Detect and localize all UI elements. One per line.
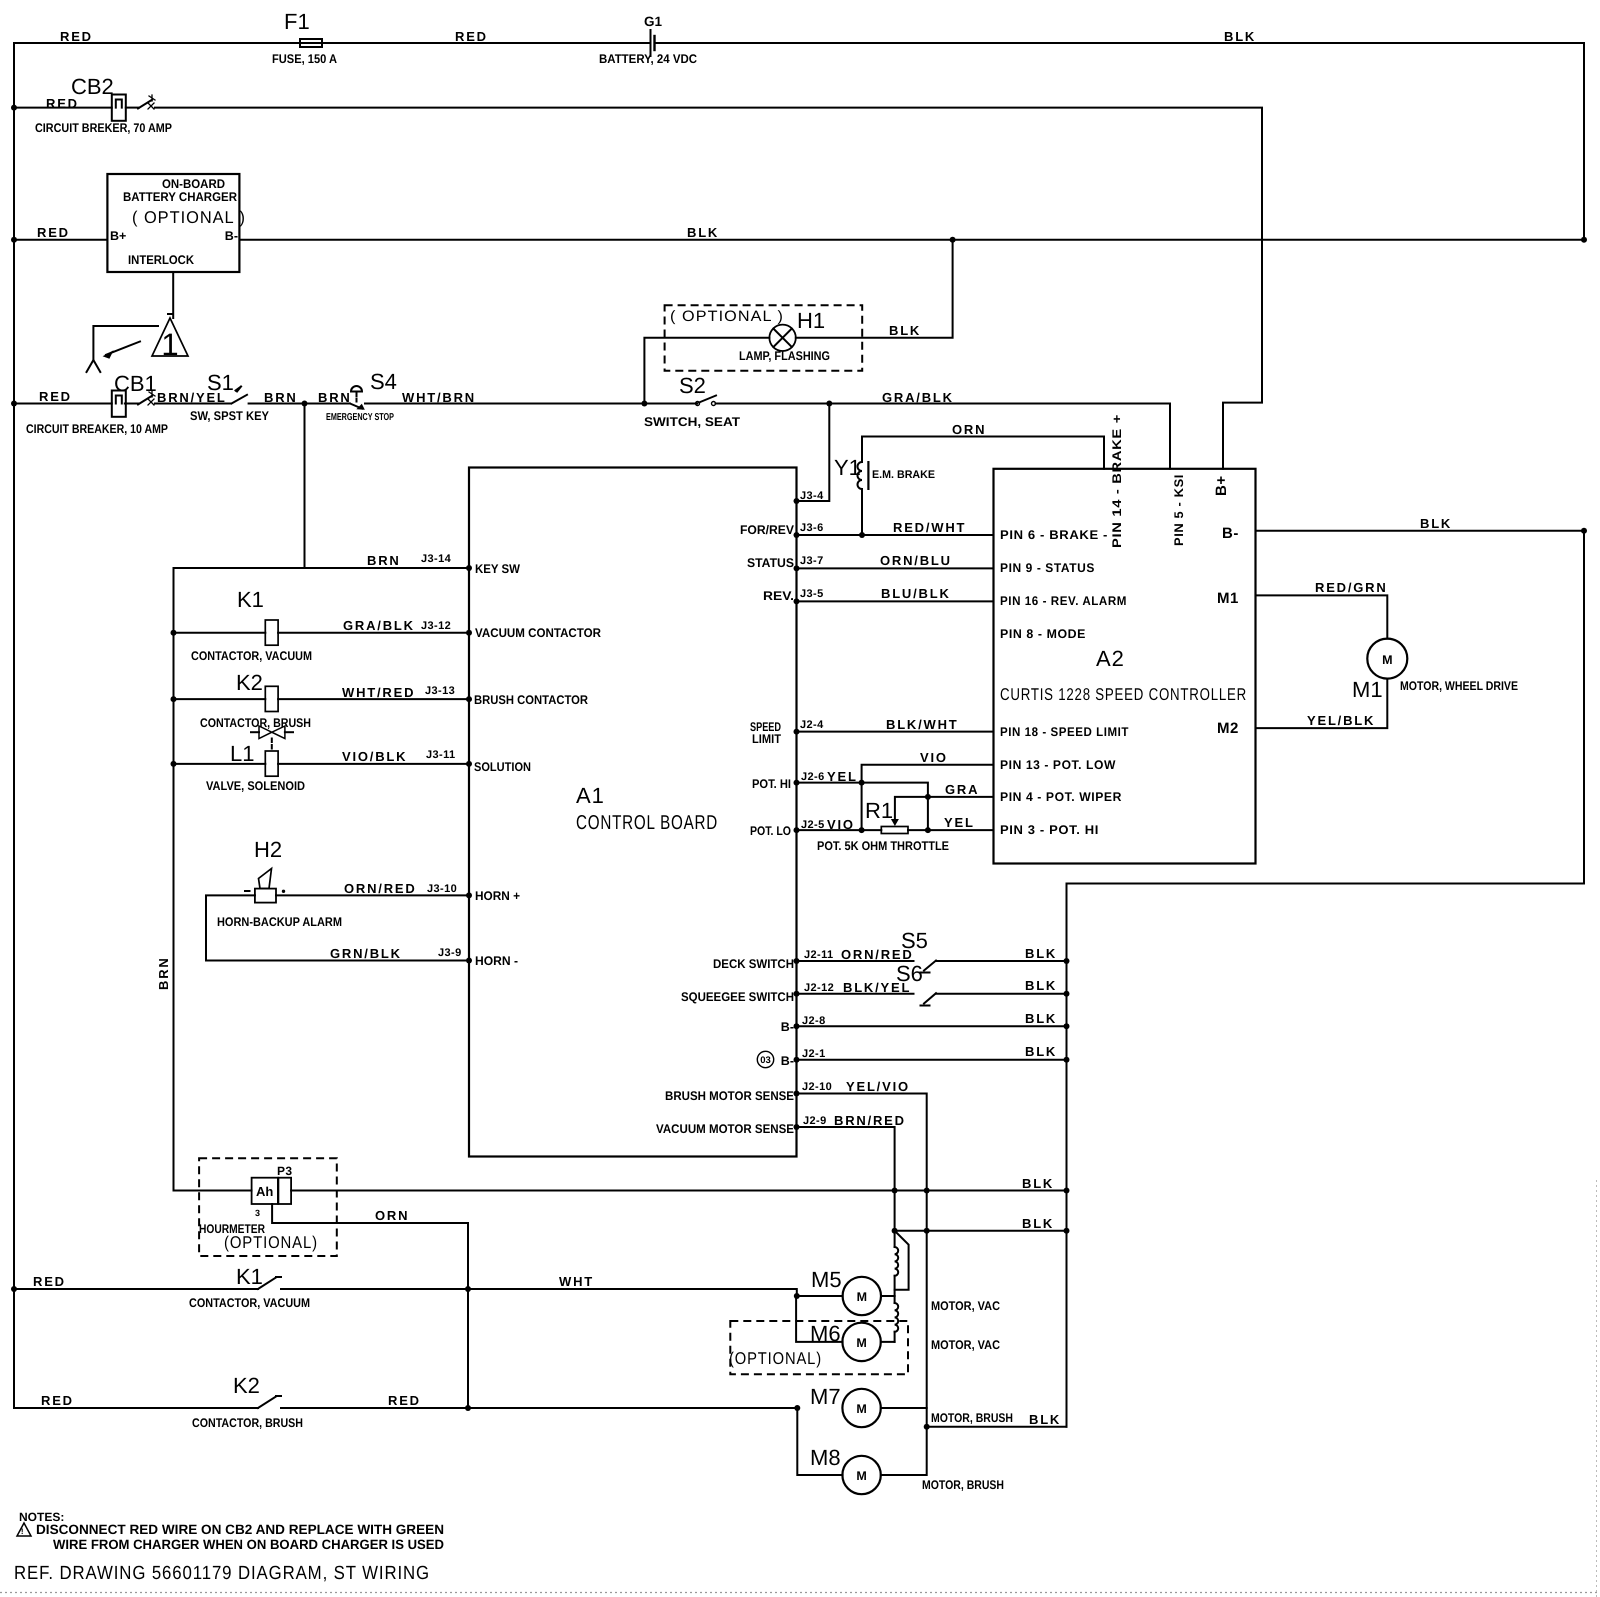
svg-text:PIN 16 - REV. ALARM: PIN 16 - REV. ALARM (1000, 594, 1127, 608)
svg-text:WHT/RED: WHT/RED (342, 685, 415, 700)
wire M2 YEL/BLK (1256, 679, 1388, 729)
svg-text:WIRE FROM CHARGER WHEN ON BOAR: WIRE FROM CHARGER WHEN ON BOARD CHARGER … (53, 1537, 444, 1552)
svg-text:BRUSH CONTACTOR: BRUSH CONTACTOR (474, 693, 588, 707)
speed controller A2 (994, 469, 1256, 864)
wire BRN/YEL (155, 390, 231, 405)
svg-text:BRN: BRN (367, 553, 401, 568)
svg-text:PIN 5 - KSI: PIN 5 - KSI (1172, 474, 1186, 546)
contactor coil K2 (174, 670, 470, 730)
motor M5 vacuum (797, 1267, 1000, 1315)
motor M6 vacuum optional (729, 1296, 1000, 1374)
svg-text:M1: M1 (1352, 677, 1383, 702)
wire RED to charger B+ (14, 225, 107, 240)
svg-text:F1: F1 (284, 9, 310, 34)
svg-text:PIN 3 - POT. HI: PIN 3 - POT. HI (1000, 823, 1099, 837)
svg-text:GRA: GRA (945, 782, 979, 797)
svg-text:BLK: BLK (1025, 1011, 1057, 1026)
svg-text:PIN 18 - SPEED LIMIT: PIN 18 - SPEED LIMIT (1000, 725, 1129, 739)
svg-text:SW, SPST KEY: SW, SPST KEY (190, 409, 270, 423)
switch S4 emergency stop (326, 369, 397, 423)
svg-text:J2-9: J2-9 (803, 1115, 827, 1127)
svg-text:PIN 6 - BRAKE -: PIN 6 - BRAKE - (1000, 528, 1108, 542)
svg-text:RED: RED (39, 389, 72, 404)
wire BRN (249, 390, 352, 405)
svg-text:BLK: BLK (1420, 516, 1452, 531)
node A1 left pin labels (474, 562, 601, 968)
svg-text:WHT/BRN: WHT/BRN (402, 390, 476, 405)
contact K2 brush contactor (14, 1373, 303, 1430)
svg-text:!: ! (21, 1527, 24, 1536)
svg-text:R1: R1 (865, 798, 893, 823)
svg-text:E.M. BRAKE: E.M. BRAKE (872, 469, 935, 481)
svg-text:B-: B- (781, 1054, 794, 1068)
note-1 warning triangle (152, 314, 188, 362)
svg-text:BLK: BLK (1025, 946, 1057, 961)
contactor coil K1 (174, 587, 470, 663)
wire CB2 row (14, 107, 112, 109)
wire H1 lamp BLK to interlock bus (796, 240, 953, 338)
svg-text:FUSE, 150 A: FUSE, 150 A (272, 52, 337, 66)
svg-text:L1: L1 (230, 741, 254, 766)
wire hourmeter ORN to vac feed (272, 1204, 468, 1408)
svg-text:VACUUM MOTOR SENSE: VACUUM MOTOR SENSE (656, 1122, 794, 1136)
svg-text:CONTACTOR, VACUUM: CONTACTOR, VACUUM (189, 1296, 310, 1310)
svg-text:RED: RED (46, 96, 79, 111)
svg-text:MOTOR, VAC: MOTOR, VAC (931, 1299, 1000, 1313)
wire K2 to M7 RED (281, 1393, 797, 1408)
solenoid valve coil L1 (174, 741, 470, 793)
svg-text:CB1: CB1 (114, 371, 157, 396)
svg-text:ORN/RED: ORN/RED (344, 881, 417, 896)
svg-text:POT. LO: POT. LO (750, 824, 791, 838)
svg-text:CONTROL BOARD: CONTROL BOARD (576, 812, 718, 834)
svg-text:A2: A2 (1096, 646, 1125, 671)
svg-text:BRN: BRN (156, 956, 171, 990)
svg-text:PIN 14 - BRAKE +: PIN 14 - BRAKE + (1110, 414, 1124, 548)
svg-text:J3-4: J3-4 (800, 490, 824, 502)
svg-text:( OPTIONAL ): ( OPTIONAL ) (132, 208, 246, 227)
svg-text:(OPTIONAL): (OPTIONAL) (224, 1233, 318, 1252)
svg-text:K1: K1 (236, 1264, 263, 1289)
svg-text:SOLUTION: SOLUTION (474, 760, 531, 774)
svg-text:J3-14: J3-14 (421, 553, 452, 565)
svg-text:P3: P3 (277, 1164, 292, 1178)
svg-text:BLU/BLK: BLU/BLK (881, 586, 951, 601)
horn H2 backup alarm (217, 837, 342, 929)
battery charger A interlock box (107, 174, 246, 272)
svg-text:ON-BOARD: ON-BOARD (162, 177, 225, 191)
svg-text:M: M (1382, 653, 1392, 667)
circuit breaker CB1 (26, 371, 168, 436)
svg-text:REV.: REV. (763, 589, 794, 603)
svg-text:PIN 9 - STATUS: PIN 9 - STATUS (1000, 561, 1095, 575)
svg-text:( OPTIONAL ): ( OPTIONAL ) (670, 308, 784, 325)
svg-text:J2-5: J2-5 (801, 819, 825, 831)
svg-text:H2: H2 (254, 837, 282, 862)
svg-text:B+: B+ (1213, 475, 1230, 496)
svg-text:BATTERY, 24 VDC: BATTERY, 24 VDC (599, 52, 697, 66)
svg-text:KEY SW: KEY SW (475, 562, 520, 576)
svg-text:CIRCUIT BREKER, 70 AMP: CIRCUIT BREKER, 70 AMP (35, 121, 172, 135)
svg-text:K2: K2 (236, 670, 263, 695)
svg-text:B-: B- (781, 1020, 794, 1034)
wire K1 to M5 WHT (281, 1274, 797, 1296)
notes block (14, 1510, 444, 1584)
svg-text:VIO/BLK: VIO/BLK (342, 749, 407, 764)
inductor M5 field coil (895, 1231, 899, 1296)
svg-text:LIMIT: LIMIT (752, 732, 781, 746)
svg-text:B-: B- (225, 229, 238, 243)
svg-text:VACUUM CONTACTOR: VACUUM CONTACTOR (475, 626, 601, 640)
svg-text:BLK/YEL: BLK/YEL (843, 980, 911, 995)
svg-text:J2-12: J2-12 (804, 982, 834, 994)
wire H1 lamp feed from seat switch (644, 338, 769, 404)
svg-text:RED: RED (388, 1393, 421, 1408)
svg-text:J2-10: J2-10 (802, 1081, 832, 1093)
svg-text:S4: S4 (370, 369, 397, 394)
svg-text:EMERGENCY STOP: EMERGENCY STOP (326, 412, 394, 423)
svg-text:YEL: YEL (827, 769, 858, 784)
battery G1 (599, 14, 697, 66)
svg-text:BLK: BLK (1022, 1176, 1054, 1191)
wire M1 RED/GRN (1256, 580, 1388, 639)
svg-text:M: M (857, 1290, 867, 1304)
svg-text:BRN/RED: BRN/RED (834, 1113, 906, 1128)
svg-text:VIO: VIO (920, 750, 948, 765)
svg-text:BATTERY CHARGER: BATTERY CHARGER (123, 190, 237, 204)
svg-text:HORN -: HORN - (475, 954, 518, 968)
inductor M6 field coil (895, 1296, 899, 1342)
node A2 pin labels (1000, 414, 1239, 837)
svg-text:M5: M5 (811, 1267, 842, 1292)
wire horn - GRN/BLK J3-9 (206, 946, 469, 961)
svg-text:VIO: VIO (827, 817, 855, 832)
wire J2-4 BLK/WHT speed limit (797, 717, 994, 732)
wire B- BLK row (1067, 516, 1585, 1427)
wire horn + ORN/RED J3-10 (206, 881, 469, 961)
svg-text:GRA/BLK: GRA/BLK (882, 390, 954, 405)
svg-text:MOTOR, VAC: MOTOR, VAC (931, 1338, 1000, 1352)
control board A1 (469, 468, 797, 1157)
svg-text:BLK: BLK (1224, 29, 1256, 44)
node circled 03 (757, 1051, 773, 1067)
svg-text:3: 3 (255, 1208, 260, 1218)
svg-text:HORN +: HORN + (475, 889, 520, 903)
svg-text:BLK: BLK (1025, 1044, 1057, 1059)
svg-text:G1: G1 (644, 14, 663, 29)
svg-text:CONTACTOR, BRUSH: CONTACTOR, BRUSH (200, 716, 311, 730)
svg-text:RED/GRN: RED/GRN (1315, 580, 1388, 595)
svg-text:REF. DRAWING 56601179 DIAGRAM,: REF. DRAWING 56601179 DIAGRAM, ST WIRING (14, 1563, 430, 1584)
motor M1 wheel drive (1352, 639, 1518, 702)
svg-text:GRN/BLK: GRN/BLK (330, 946, 402, 961)
svg-text:J2-1: J2-1 (802, 1048, 826, 1060)
svg-text:J2-11: J2-11 (804, 949, 834, 961)
svg-text:BRUSH MOTOR SENSE: BRUSH MOTOR SENSE (665, 1089, 794, 1103)
switch S5 deck switch J2-11 (797, 928, 1067, 973)
svg-text:POT. HI: POT. HI (752, 777, 791, 791)
svg-text:H1: H1 (797, 308, 825, 333)
svg-text:J3-5: J3-5 (800, 588, 824, 600)
motor M7 brush (810, 1384, 1013, 1427)
wire CB1 row RED (14, 389, 112, 404)
svg-text:CURTIS 1228 SPEED CONTROLLER: CURTIS 1228 SPEED CONTROLLER (1000, 685, 1247, 704)
wire J3-5 BLU/BLK rev row (797, 586, 994, 601)
svg-text:MOTOR, WHEEL DRIVE: MOTOR, WHEEL DRIVE (1400, 679, 1518, 693)
svg-text:BLK: BLK (1029, 1412, 1061, 1427)
svg-text:DECK SWITCH: DECK SWITCH (713, 957, 794, 971)
wire charger interlock drop (172, 272, 174, 318)
wire J2-10 YEL/VIO brush motor sense (797, 1079, 927, 1427)
svg-text:RED: RED (41, 1393, 74, 1408)
wire J2-9 BRN/RED vacuum motor sense (797, 1113, 906, 1231)
svg-text:(OPTIONAL): (OPTIONAL) (729, 1349, 822, 1368)
wire ORN brake to PIN 14 (862, 422, 1104, 469)
svg-text:ORN/RED: ORN/RED (841, 947, 914, 962)
svg-text:MOTOR, BRUSH: MOTOR, BRUSH (922, 1478, 1004, 1492)
wire J2-1 B- row (797, 1044, 1067, 1060)
potentiometer R1 throttle (797, 797, 994, 853)
wire CB2 to controller B+ (155, 108, 1262, 469)
svg-text:J3-11: J3-11 (426, 749, 456, 761)
svg-text:LAMP, FLASHING: LAMP, FLASHING (739, 349, 830, 363)
svg-text:ORN/BLU: ORN/BLU (880, 553, 952, 568)
svg-text:M1: M1 (1217, 590, 1239, 607)
circuit breaker CB2 (35, 74, 172, 135)
svg-text:WHT: WHT (559, 1274, 594, 1289)
svg-text:J3-6: J3-6 (800, 522, 824, 534)
svg-text:BRN: BRN (318, 390, 352, 405)
wire WHT/BRN to seat switch (365, 390, 697, 405)
svg-text:M2: M2 (1217, 720, 1239, 737)
lamp H1 optional box (665, 305, 863, 371)
svg-text:M8: M8 (810, 1445, 841, 1470)
switch S1 key switch (190, 370, 270, 423)
node scan artifact dotted edge (0, 1180, 1600, 1597)
svg-text:RED: RED (37, 225, 70, 240)
svg-text:S2: S2 (679, 373, 706, 398)
svg-text:RED: RED (455, 29, 488, 44)
svg-text:Ah: Ah (256, 1184, 273, 1199)
svg-text:J3-10: J3-10 (427, 883, 457, 895)
node A1 right pin labels (656, 523, 795, 1136)
svg-text:RED/WHT: RED/WHT (893, 520, 966, 535)
fuse F1 (272, 9, 337, 66)
wire J2-8 B- row (797, 1011, 1067, 1027)
svg-text:ORN: ORN (952, 422, 986, 437)
motor M8 brush (797, 1408, 1004, 1494)
wire hourmeter BLK return row (291, 1176, 1066, 1191)
svg-text:A1: A1 (576, 783, 605, 808)
svg-text:M: M (856, 1336, 866, 1350)
svg-text:BLK/WHT: BLK/WHT (886, 717, 959, 732)
svg-text:HORN-BACKUP ALARM: HORN-BACKUP ALARM (217, 915, 342, 929)
valve symbol (251, 726, 293, 751)
svg-text:J3-9: J3-9 (438, 947, 462, 959)
switch S2 seat switch (644, 373, 740, 429)
svg-text:1: 1 (161, 327, 178, 362)
svg-text:B-: B- (1222, 525, 1239, 542)
svg-text:CONTACTOR, BRUSH: CONTACTOR, BRUSH (192, 1416, 303, 1430)
svg-text:YEL: YEL (944, 815, 975, 830)
svg-text:INTERLOCK: INTERLOCK (128, 253, 194, 267)
contact K1 vacuum contactor (14, 1264, 310, 1310)
wire M5 thermal bypass (895, 1231, 909, 1290)
svg-text:SQUEEGEE SWITCH: SQUEEGEE SWITCH (681, 990, 794, 1004)
wire J3-4 drop from seat circuit (797, 404, 830, 503)
svg-text:RED: RED (60, 29, 93, 44)
svg-text:03: 03 (760, 1055, 771, 1066)
svg-text:YEL/BLK: YEL/BLK (1307, 713, 1375, 728)
svg-text:PIN 4 - POT. WIPER: PIN 4 - POT. WIPER (1000, 790, 1122, 804)
wire seat switch to KSI (716, 390, 1171, 469)
svg-text:CONTACTOR, VACUUM: CONTACTOR, VACUUM (191, 649, 312, 663)
svg-text:DISCONNECT RED WIRE ON CB2 AND: DISCONNECT RED WIRE ON CB2 AND REPLACE W… (36, 1522, 444, 1537)
svg-text:VALVE, SOLENOID: VALVE, SOLENOID (206, 779, 305, 793)
svg-text:POT. 5K OHM THROTTLE: POT. 5K OHM THROTTLE (817, 839, 949, 853)
svg-text:J3-13: J3-13 (425, 685, 455, 697)
svg-text:STATUS: STATUS (747, 556, 794, 570)
svg-text:BLK: BLK (1022, 1216, 1054, 1231)
svg-text:BLK: BLK (1025, 978, 1057, 993)
svg-text:J2-4: J2-4 (800, 719, 824, 731)
svg-text:K1: K1 (237, 587, 264, 612)
svg-text:SWITCH, SEAT: SWITCH, SEAT (644, 415, 740, 429)
svg-text:B+: B+ (110, 229, 126, 243)
wire BLK from charger B- to right bus (240, 225, 1585, 240)
relay coil Y1 E.M. brake (834, 437, 935, 536)
svg-text:S1: S1 (207, 370, 234, 395)
svg-text:FOR/REV: FOR/REV (740, 523, 795, 537)
wire BLK motor return row (895, 1216, 1067, 1231)
svg-text:GRA/BLK: GRA/BLK (343, 618, 415, 633)
svg-text:YEL/VIO: YEL/VIO (846, 1079, 910, 1094)
svg-text:RED: RED (33, 1274, 66, 1289)
svg-text:J2-8: J2-8 (802, 1015, 826, 1027)
svg-text:J3-7: J3-7 (800, 555, 824, 567)
node callout pointer to CB1 wire (87, 326, 159, 372)
wire VIO pot low (862, 750, 994, 830)
svg-text:K2: K2 (233, 1373, 260, 1398)
svg-text:M7: M7 (810, 1384, 841, 1409)
wire J3-7 ORN/BLU status row (797, 553, 994, 568)
svg-text:CIRCUIT BREAKER, 10 AMP: CIRCUIT BREAKER, 10 AMP (26, 422, 168, 436)
svg-text:J3-12: J3-12 (421, 620, 451, 632)
svg-text:J2-6: J2-6 (801, 771, 825, 783)
wire GRA pot wiper (928, 782, 994, 797)
svg-text:PIN 8 - MODE: PIN 8 - MODE (1000, 627, 1086, 641)
wire J2-6 YEL pot hi (797, 769, 928, 830)
wire key switch row BRN J3-14 (174, 404, 470, 569)
svg-text:M: M (856, 1469, 866, 1483)
wire BRN coil bus (156, 568, 252, 1191)
hourmeter P3 optional box (199, 1158, 337, 1256)
wire J3-6 RED/WHT brake row (797, 520, 994, 535)
svg-text:ORN: ORN (375, 1208, 409, 1223)
svg-text:BLK: BLK (687, 225, 719, 240)
svg-text:M: M (856, 1402, 866, 1416)
wire M7 BLK to bus (927, 1412, 1067, 1427)
svg-text:PIN 13 - POT. LOW: PIN 13 - POT. LOW (1000, 758, 1116, 772)
svg-text:BLK: BLK (889, 323, 921, 338)
svg-text:MOTOR, BRUSH: MOTOR, BRUSH (931, 1411, 1013, 1425)
svg-text:BRN: BRN (264, 390, 298, 405)
switch S6 squeegee switch J2-12 (797, 961, 1067, 1006)
